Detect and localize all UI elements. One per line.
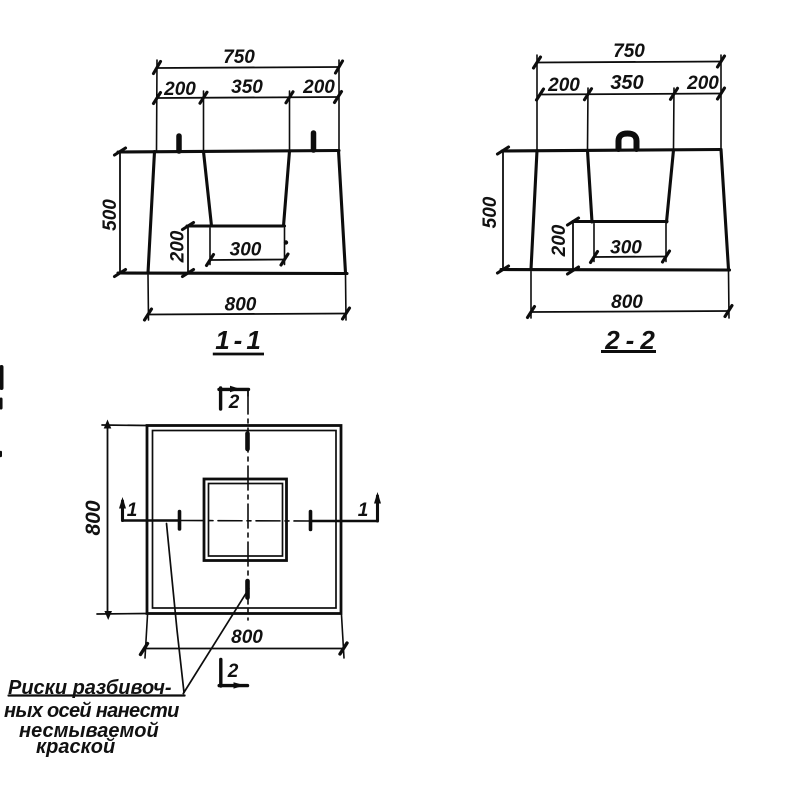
tick 750 right (336, 61, 343, 73)
dim line 800 (148, 314, 346, 315)
rebar mark left (176, 136, 182, 151)
underline 2-2 (601, 350, 656, 353)
block 1-1 cavity right wall (284, 151, 290, 226)
extension 800R (2-2) (728, 272, 731, 319)
tick 200v top (183, 223, 194, 230)
block 1-1 bottom edge (118, 271, 347, 275)
plan 800 left extension bottom stub (97, 613, 147, 616)
svg-text:200: 200 (168, 230, 189, 263)
tick2 c (671, 88, 678, 99)
underline of section labels (213, 352, 656, 355)
tick 750R (718, 56, 725, 67)
svg-text:1: 1 (358, 500, 369, 521)
svg-text:200: 200 (549, 224, 570, 257)
svg-text:800: 800 (231, 627, 263, 648)
rebar mark right (311, 133, 317, 150)
svg-text:200: 200 (302, 77, 335, 98)
note underline / leader shelf (9, 694, 185, 696)
section 2 bottom bracket horizontal (219, 684, 247, 687)
leader line to left axis mark (167, 524, 185, 693)
section 2 top connector (247, 390, 249, 396)
section 2 top bracket vertical (219, 388, 222, 409)
tick2 d (718, 88, 725, 99)
tick 300L (591, 252, 598, 263)
section 1 right arrow stem (376, 496, 379, 521)
block 1-1 cavity left wall (204, 152, 212, 227)
plan outer square outer line (147, 426, 341, 614)
section 2 bottom bracket vertical (219, 660, 222, 687)
dim line 200-350-200 (2-2) (540, 94, 721, 95)
svg-text:2: 2 (228, 392, 240, 413)
svg-text:500: 500 (100, 199, 121, 231)
svg-text:500: 500 (480, 196, 501, 228)
axis mark riska top (245, 434, 250, 450)
plan cavity square outer line (204, 479, 287, 561)
scan artifact marks at left edge (0, 367, 4, 388)
tick 500t (498, 147, 509, 154)
plan dim line 800 left vertical (107, 425, 109, 614)
svg-text:1: 1 (127, 500, 138, 521)
extension line left x537 (536, 55, 538, 150)
svg-text:300: 300 (230, 240, 262, 261)
svg-text:800: 800 (611, 292, 643, 313)
tick 200b (568, 267, 579, 274)
tick 500 top (115, 148, 126, 155)
extension cavity-left x588 (587, 88, 590, 150)
extension 300L (2-2) (593, 224, 595, 262)
horizontal centerline axis 1 (180, 520, 310, 523)
section 2 bottom arrowhead (234, 682, 246, 688)
extension line cavity-right x289.5 (289, 91, 291, 150)
section 1 left arrow stem (121, 501, 124, 521)
dim line 500 vertical (119, 152, 121, 274)
dim line 750 (2-2) (537, 62, 721, 63)
vertical centerline axis 2 (247, 390, 249, 620)
block 1-1 cavity bottom (187, 224, 285, 227)
section 1 right arrowhead (374, 492, 381, 504)
dim line 300 (210, 259, 285, 262)
svg-text:800: 800 (82, 500, 105, 535)
svg-text:ных осей нанести: ных осей нанести (4, 700, 179, 722)
tick 300 left (207, 255, 214, 266)
block 2-2 cavity left wall (588, 151, 593, 223)
extension 300R (2-2) (665, 224, 667, 262)
extension 300 right (284, 228, 286, 265)
block 2-2 cavity right wall (667, 150, 674, 222)
tick 500 bottom (115, 270, 126, 277)
block 1-1 top edge (118, 151, 339, 153)
tick plan800L bottom (104, 611, 112, 620)
extension cavity-right x674 (673, 88, 676, 149)
tick c (286, 92, 293, 103)
extension line right x721 (720, 55, 722, 149)
extension 300 left (209, 228, 211, 265)
dim line 500 vertical (2-2) (502, 151, 504, 270)
section 2 top bracket horizontal (219, 388, 249, 391)
section tick left (178, 512, 182, 530)
tick b (200, 92, 207, 103)
block 2-2 top edge (502, 150, 721, 152)
plan 800 left extension top stub (102, 424, 147, 427)
tick plan800B right (340, 643, 347, 654)
svg-text:200: 200 (547, 75, 580, 96)
svg-text:300: 300 (610, 238, 642, 259)
dim line 800 (2-2) (531, 311, 729, 312)
tick d (335, 92, 342, 103)
tick 800R (725, 306, 732, 317)
tick 500b (498, 266, 509, 273)
block 2-2 right sloped edge (721, 150, 729, 270)
block 2-2 bottom edge (501, 268, 730, 272)
svg-text:краской: краской (36, 736, 115, 758)
dim line 200 vertical (187, 226, 189, 273)
ink dot 1-1 (284, 240, 288, 244)
dim line 300 (2-2) (594, 256, 666, 259)
plan 800 bottom extension right (342, 615, 345, 658)
section 2 top arrowhead (230, 386, 241, 392)
svg-text:2: 2 (227, 661, 239, 682)
tick 800 right (343, 308, 350, 319)
svg-text:Риски разбивоч-: Риски разбивоч- (8, 677, 172, 699)
svg-text:750: 750 (613, 41, 645, 62)
plan dim line 800 bottom (144, 648, 344, 650)
tick 750L (534, 57, 541, 68)
extension line left x157 (156, 60, 159, 151)
tick 200t (568, 218, 579, 225)
svg-text:750: 750 (223, 47, 255, 68)
extension 800 right (345, 275, 348, 320)
tick 800 left (145, 309, 152, 320)
extension line cavity-left x203.5 (203, 91, 205, 150)
svg-text:800: 800 (225, 295, 257, 316)
tick a (154, 93, 161, 104)
lifting loop U2 (619, 134, 637, 150)
tick 300 right (281, 254, 288, 265)
block 1-1 left sloped edge (148, 152, 155, 274)
svg-text:1-1: 1-1 (215, 325, 265, 355)
dim line 200 vertical (2-2) (572, 222, 574, 271)
tick plan800B left (141, 644, 148, 655)
section line 1 left horizontal (123, 519, 181, 521)
svg-text:200: 200 (686, 73, 719, 94)
extension 800 left (147, 275, 150, 320)
svg-text:350: 350 (231, 77, 263, 98)
block 1-1 right sloped edge (339, 151, 346, 274)
section tick right (309, 512, 313, 530)
section 1 left arrowhead (119, 497, 126, 509)
plan 800 bottom extension left (145, 615, 148, 658)
underline 1-1 (213, 353, 264, 356)
tick 750 left (154, 62, 161, 74)
svg-text:350: 350 (610, 72, 643, 94)
tick2 a (537, 89, 544, 100)
dim line 200-350-200 (157, 97, 338, 98)
leader line to bottom axis mark (183, 589, 249, 694)
tick plan800L top (104, 420, 112, 429)
plan cavity square inner line (209, 484, 283, 557)
svg-text:200: 200 (163, 79, 196, 100)
axis mark riska bottom (245, 581, 250, 598)
extension line right x339 (338, 60, 340, 150)
tick 200v bottom (183, 270, 194, 277)
tick 300R (663, 251, 670, 262)
tick2 b (585, 89, 592, 100)
extension 800L (2-2) (530, 272, 532, 319)
block 2-2 left sloped edge (531, 151, 537, 270)
section line 1 right horizontal (310, 520, 378, 522)
tick 800L (528, 307, 535, 318)
block 2-2 cavity bottom (573, 220, 667, 223)
plan outer square inner line (153, 431, 337, 609)
dim line 750 (157, 67, 339, 68)
